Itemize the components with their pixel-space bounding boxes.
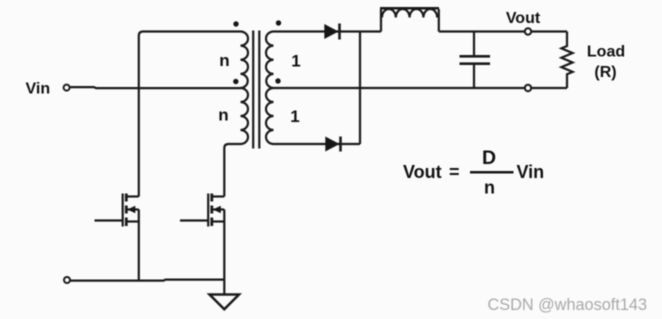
transistor Q2 (MOSFET) bbox=[180, 194, 224, 281]
transformer T1 secondary lower winding (1) bbox=[266, 88, 274, 144]
transformer dot secondary top bbox=[276, 20, 281, 25]
svg-text:D: D bbox=[482, 147, 496, 169]
svg-text:n: n bbox=[219, 51, 229, 70]
wire top rail: Q1 drain up and across to primary top bbox=[139, 32, 241, 197]
diode D2 bbox=[325, 137, 340, 152]
wire output bottom rail bbox=[274, 87, 568, 89]
svg-text:Vin: Vin bbox=[26, 81, 51, 98]
transistor Q1 (MOSFET) bbox=[95, 194, 139, 281]
diode D1 bbox=[324, 24, 339, 40]
svg-text:Vout: Vout bbox=[403, 162, 442, 182]
svg-text:n: n bbox=[218, 106, 228, 125]
ground bbox=[210, 295, 240, 310]
node output return terminal bbox=[525, 85, 531, 91]
wire secondary bottom to diode D2 bbox=[274, 143, 361, 145]
wire inductor to load top bbox=[439, 30, 567, 32]
svg-text:1: 1 bbox=[290, 107, 299, 126]
transformer T1 secondary upper winding (1) bbox=[266, 32, 274, 89]
svg-text:=: = bbox=[449, 162, 460, 182]
transformer T1 primary upper winding (n) bbox=[241, 32, 249, 89]
svg-text:n: n bbox=[484, 178, 495, 198]
wire Vin to center tap bbox=[70, 87, 240, 88]
wire diode node vertical bbox=[359, 32, 361, 145]
svg-text:Vin: Vin bbox=[517, 162, 545, 182]
wire secondary top to diode D1 and node bbox=[274, 30, 382, 32]
resistor R load bbox=[561, 32, 572, 89]
svg-text:CSDN @whaosoft143: CSDN @whaosoft143 bbox=[488, 296, 648, 314]
equation Vout = D/n Vin bbox=[403, 147, 544, 198]
transformer dot primary center bbox=[233, 79, 238, 84]
svg-text:Vout: Vout bbox=[506, 10, 541, 27]
transformer dot primary top bbox=[233, 21, 238, 26]
transformer T1 primary lower winding (n) bbox=[241, 88, 249, 144]
svg-text:1: 1 bbox=[291, 51, 300, 70]
transformer T1 core bbox=[253, 31, 259, 149]
node Vout terminal bbox=[525, 28, 531, 34]
svg-text:(R): (R) bbox=[594, 64, 616, 81]
wire primary bottom to Q2 drain bbox=[224, 144, 240, 197]
node bottom-left terminal bbox=[64, 277, 70, 283]
wire ground drop bbox=[223, 280, 225, 295]
wire bottom rail bbox=[71, 280, 225, 281]
capacitor C bbox=[460, 32, 491, 89]
svg-text:Load: Load bbox=[587, 44, 625, 61]
inductor L bbox=[380, 8, 439, 31]
transformer dot secondary center bbox=[275, 78, 280, 83]
node Vin terminal bbox=[64, 85, 70, 91]
